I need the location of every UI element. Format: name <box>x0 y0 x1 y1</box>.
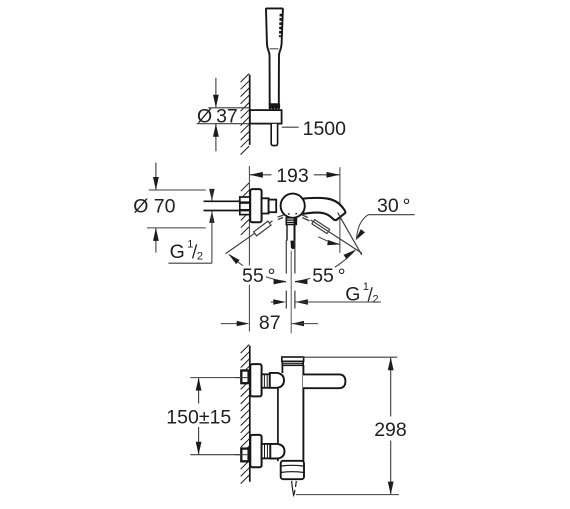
arc + arrows right 55° <box>295 250 355 285</box>
55° label right <box>312 265 345 287</box>
svg-text:1500: 1500 <box>303 118 347 140</box>
G 1/2 label (supply pipe) <box>168 189 214 263</box>
upper union nut (bottom view) <box>262 374 270 388</box>
svg-text:G: G <box>345 284 360 306</box>
arc + arrows left 55° <box>228 254 286 285</box>
55° label left <box>242 265 275 287</box>
body rings between flange and cartridge <box>262 198 277 213</box>
lower S-union body <box>270 444 284 459</box>
wall line (middle view, 193 left extension) <box>241 166 250 332</box>
bottom cap / outlet (bottom view) <box>281 461 304 479</box>
dimension 193 <box>249 165 340 253</box>
upper escutcheon (bottom view) <box>250 364 261 396</box>
svg-text:1: 1 <box>363 281 369 293</box>
svg-text:55 °: 55 ° <box>242 265 275 287</box>
dimension 87 <box>221 312 318 334</box>
svg-text:298: 298 <box>374 419 407 441</box>
union nut (middle view) <box>240 197 250 215</box>
hand shower <box>266 8 283 104</box>
svg-text:2: 2 <box>373 293 379 305</box>
handle swing line left 55° <box>226 215 284 254</box>
lower escutcheon (bottom view) <box>250 435 261 467</box>
svg-text:30 °: 30 ° <box>377 195 410 217</box>
dimension 298 <box>296 357 407 494</box>
outlet stub lines (below lever) <box>286 240 295 333</box>
spout (middle view) <box>299 198 345 220</box>
faucet body (bottom view) <box>278 365 304 461</box>
cartridge ball (middle view) <box>281 194 305 218</box>
30° leader and text <box>355 195 415 240</box>
supply pipe (middle view) <box>204 201 240 210</box>
wall (bottom view) <box>241 345 250 484</box>
in-wall elbow upper <box>235 371 248 384</box>
water drip below outlet <box>292 481 297 496</box>
upper S-union body <box>270 373 284 388</box>
hose nut (knurled) <box>269 103 280 110</box>
svg-text:150±15: 150±15 <box>166 406 231 428</box>
svg-text:1: 1 <box>187 238 193 250</box>
dimension 150±15 <box>166 378 247 455</box>
lever collar (middle view) <box>286 218 296 225</box>
svg-text:2: 2 <box>197 250 203 262</box>
handle swing line right 55° <box>302 215 363 254</box>
wall flange / escutcheon (middle view) <box>250 189 261 222</box>
dimension Ø70 <box>133 163 206 253</box>
svg-text:Ø 70: Ø 70 <box>133 196 175 218</box>
30° outlet line <box>338 213 362 255</box>
lower union nut (bottom view) <box>262 444 271 459</box>
in-wall elbow lower <box>235 449 248 462</box>
shower hose <box>271 124 277 146</box>
shower bracket <box>250 110 282 124</box>
dimension Ø37 <box>197 78 250 152</box>
svg-text:G: G <box>170 241 185 263</box>
svg-text:55 °: 55 ° <box>312 265 345 287</box>
top cap (bottom view) <box>282 357 304 365</box>
lever shaft (middle view) <box>287 225 295 250</box>
30° angle arc <box>318 237 340 246</box>
leader 1500 (hose length) <box>282 118 346 140</box>
wall (top view) <box>241 74 250 155</box>
svg-text:193: 193 <box>276 165 309 187</box>
lever arm (bottom view) <box>303 374 345 388</box>
svg-text:Ø 37: Ø 37 <box>197 105 238 127</box>
svg-text:87: 87 <box>259 312 281 334</box>
G 1/2 label (bottom outlet) <box>271 281 381 305</box>
